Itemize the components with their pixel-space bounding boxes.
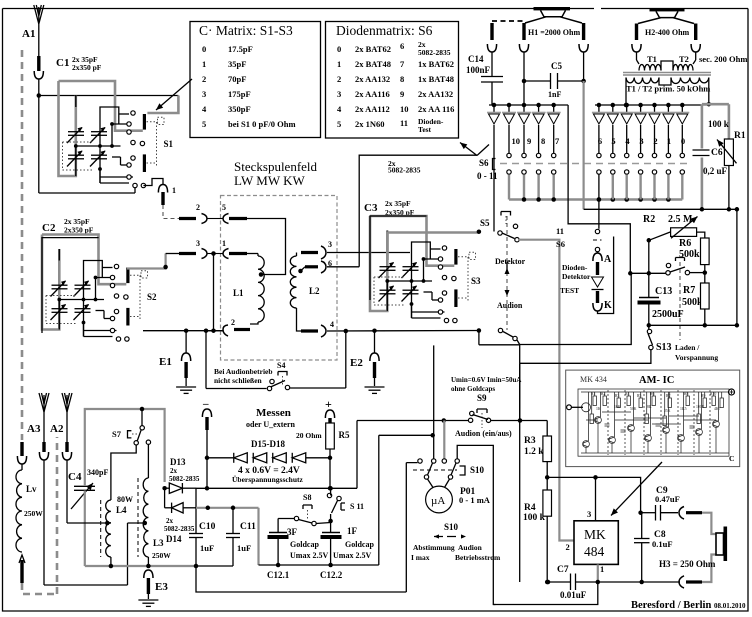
svg-text:R6: R6 bbox=[650, 392, 655, 396]
svg-text:3: 3 bbox=[196, 239, 200, 248]
transformer core bbox=[623, 72, 711, 74]
svg-text:2x: 2x bbox=[166, 517, 174, 525]
svg-text:Dioden-: Dioden- bbox=[562, 263, 588, 272]
svg-text:1: 1 bbox=[337, 59, 341, 69]
svg-text:R4: R4 bbox=[625, 392, 630, 396]
svg-text:H1 =2000 Ohm: H1 =2000 Ohm bbox=[528, 28, 580, 37]
svg-text:R10: R10 bbox=[710, 392, 716, 396]
svg-text:L2: L2 bbox=[309, 286, 320, 296]
bottom rail left bbox=[85, 565, 196, 567]
svg-text:Goldcap: Goldcap bbox=[345, 540, 374, 549]
svg-text:25K: 25K bbox=[664, 409, 671, 413]
svg-text:11: 11 bbox=[556, 226, 564, 236]
svg-text:5082-2835: 5082-2835 bbox=[388, 166, 421, 175]
svg-text:Umin=0.6V Imin=50uA: Umin=0.6V Imin=50uA bbox=[451, 376, 521, 384]
wire S2 out to L1 return bbox=[143, 330, 223, 332]
table Diodenmatrix S6 bbox=[326, 22, 459, 139]
A1 dashed left rail bbox=[21, 50, 24, 440]
wire detector switch row bbox=[630, 272, 666, 274]
svg-text:nicht schließen: nicht schließen bbox=[214, 376, 263, 385]
svg-text:S6: S6 bbox=[479, 158, 489, 168]
wire pin3 node to C9 bbox=[596, 477, 641, 512]
svg-text:S1: S1 bbox=[164, 139, 174, 149]
svg-text:R3: R3 bbox=[524, 436, 536, 446]
arrester A1 bottom bbox=[20, 442, 23, 456]
svg-text:3: 3 bbox=[328, 240, 332, 249]
svg-text:R4: R4 bbox=[524, 503, 536, 513]
wire audion out bbox=[520, 273, 632, 344]
svg-text:C· Matrix: S1-S3: C· Matrix: S1-S3 bbox=[199, 23, 293, 38]
svg-text:2x350 pF: 2x350 pF bbox=[72, 63, 102, 72]
svg-text:Detektor: Detektor bbox=[562, 272, 591, 281]
svg-text:0: 0 bbox=[202, 44, 206, 54]
svg-text:Vorspannung: Vorspannung bbox=[675, 353, 718, 362]
wire 1 to L1 bbox=[247, 253, 258, 255]
svg-text:1F: 1F bbox=[347, 526, 358, 536]
svg-text:7: 7 bbox=[400, 59, 405, 69]
wire C2 to socket3 bbox=[127, 254, 166, 269]
svg-text:17.5pF: 17.5pF bbox=[228, 44, 253, 54]
svg-text:R2: R2 bbox=[601, 392, 606, 396]
C3 outer box bbox=[370, 216, 427, 300]
svg-text:2x: 2x bbox=[170, 467, 178, 475]
wire A1 down bbox=[38, 24, 40, 56]
svg-text:175pF: 175pF bbox=[228, 89, 251, 99]
svg-text:2x AA132: 2x AA132 bbox=[418, 89, 453, 99]
svg-text:R1: R1 bbox=[591, 392, 596, 396]
svg-text:4: 4 bbox=[202, 104, 207, 114]
wire C1 top feed bbox=[39, 95, 179, 97]
jack H3 bottom bbox=[679, 576, 684, 588]
svg-text:0: 0 bbox=[681, 136, 685, 146]
svg-text:1K5: 1K5 bbox=[680, 407, 687, 411]
wire meter feed bbox=[379, 434, 433, 436]
svg-text:10: 10 bbox=[400, 104, 409, 114]
svg-text:70pF: 70pF bbox=[228, 74, 246, 84]
svg-text:D14: D14 bbox=[166, 534, 182, 544]
svg-text:sec. 200 Ohm: sec. 200 Ohm bbox=[699, 54, 747, 64]
svg-text:LW MW KW: LW MW KW bbox=[234, 173, 305, 188]
node L1 tap bbox=[259, 272, 264, 277]
svg-text:250W: 250W bbox=[152, 551, 171, 560]
svg-text:Audion: Audion bbox=[458, 543, 483, 552]
svg-text:R5: R5 bbox=[637, 394, 642, 398]
svg-text:TEST: TEST bbox=[560, 286, 579, 295]
svg-text:S6: S6 bbox=[556, 239, 565, 249]
IC MK484 bbox=[574, 521, 618, 565]
svg-text:R3: R3 bbox=[615, 394, 620, 398]
wire bus 325 bbox=[649, 324, 737, 326]
wire socket6 right bbox=[327, 266, 359, 268]
wire A3 down bbox=[43, 412, 45, 442]
S6 diode group A bus bbox=[489, 104, 568, 106]
svg-text:8: 8 bbox=[541, 136, 545, 146]
svg-text:0: 0 bbox=[337, 44, 341, 54]
svg-text:S4: S4 bbox=[277, 361, 285, 370]
C3 gray top wire bbox=[388, 233, 479, 261]
antenna A2 bbox=[66, 395, 68, 412]
svg-text:Steckspulenfeld: Steckspulenfeld bbox=[234, 159, 318, 174]
wire H1right to bus209 bbox=[582, 81, 584, 209]
wire K loop bbox=[598, 237, 614, 314]
S6 diode group B bus bbox=[595, 104, 709, 106]
node L2 tap bbox=[298, 269, 303, 274]
svg-text:A: A bbox=[604, 254, 612, 265]
headphone H2 bbox=[650, 8, 685, 11]
svg-text:Diodenmatrix: S6: Diodenmatrix: S6 bbox=[336, 23, 433, 38]
svg-text:L​v: L​v bbox=[26, 484, 37, 494]
svg-text:2x BAT62: 2x BAT62 bbox=[355, 44, 391, 54]
svg-text:E3: E3 bbox=[155, 581, 168, 593]
dashed coil-field box bbox=[221, 196, 338, 361]
svg-text:5: 5 bbox=[202, 119, 206, 129]
svg-text:10: 10 bbox=[512, 136, 521, 146]
A1 dashed bottom link bbox=[22, 437, 57, 594]
svg-text:35pF: 35pF bbox=[228, 59, 246, 69]
svg-text:R7: R7 bbox=[683, 285, 695, 296]
svg-text:500k: 500k bbox=[682, 297, 703, 308]
antenna A3 bbox=[43, 395, 45, 412]
svg-text:4K7: 4K7 bbox=[714, 407, 721, 411]
svg-text:Goldcap: Goldcap bbox=[290, 540, 319, 549]
svg-text:Laden /: Laden / bbox=[675, 343, 700, 352]
svg-text:R1: R1 bbox=[734, 131, 746, 141]
svg-text:1: 1 bbox=[172, 186, 176, 195]
S6 contacts group A row1 bbox=[507, 153, 511, 157]
svg-text:C5: C5 bbox=[551, 61, 562, 71]
svg-text:A2: A2 bbox=[50, 423, 64, 435]
node L3 tap bbox=[143, 521, 148, 526]
AM-IC box bbox=[566, 370, 740, 467]
svg-text:20 Ohm: 20 Ohm bbox=[296, 431, 322, 440]
svg-text:C13: C13 bbox=[655, 286, 672, 297]
svg-text:250W: 250W bbox=[24, 509, 43, 518]
wire measure bus 488 bbox=[196, 487, 357, 489]
diodes group B bbox=[598, 105, 600, 113]
svg-text:R7: R7 bbox=[666, 394, 671, 398]
svg-text:2: 2 bbox=[566, 542, 570, 552]
jack H3 top bbox=[679, 507, 684, 520]
S6 contacts group B row2 bbox=[597, 170, 601, 174]
node box top bbox=[140, 407, 145, 412]
wire to speaker bottom bbox=[702, 555, 716, 583]
S6 output bus bbox=[509, 198, 682, 200]
arrester on A1 bbox=[37, 56, 40, 71]
S6 linkage dashed bbox=[500, 163, 690, 165]
svg-text:C12.1: C12.1 bbox=[267, 570, 290, 580]
switch R6 bypass bbox=[666, 263, 670, 267]
table C-Matrix S1-S3 bbox=[190, 22, 321, 138]
svg-text:0.01uF: 0.01uF bbox=[560, 590, 587, 600]
svg-text:MK 434: MK 434 bbox=[580, 375, 607, 384]
annotation arrow to S1 bbox=[156, 79, 192, 110]
node C9 bbox=[638, 510, 643, 515]
wire socket4 to E2 bbox=[327, 330, 479, 333]
svg-text:Überspannungsschutz: Überspannungsschutz bbox=[232, 475, 304, 484]
node detector line bbox=[628, 271, 633, 276]
svg-text:5: 5 bbox=[611, 136, 615, 146]
svg-text:A3: A3 bbox=[27, 423, 41, 435]
wire minus rail vertical x520 bbox=[519, 363, 521, 420]
node R5-diode bbox=[328, 456, 333, 461]
wire C1 bottom return bbox=[39, 192, 135, 194]
svg-text:6: 6 bbox=[400, 41, 404, 51]
wire socket1 dashed down bbox=[163, 205, 190, 219]
H1 left pin bbox=[522, 23, 525, 40]
svg-text:4: 4 bbox=[330, 320, 334, 329]
svg-text:5: 5 bbox=[222, 203, 226, 212]
svg-text:D13: D13 bbox=[170, 457, 186, 467]
svg-text:S10: S10 bbox=[470, 465, 485, 475]
svg-text:C14: C14 bbox=[468, 54, 484, 64]
H2 left pin bbox=[635, 24, 638, 41]
svg-text:Audion (ein/aus): Audion (ein/aus) bbox=[455, 429, 512, 438]
svg-text:2: 2 bbox=[337, 74, 341, 84]
audion switch bbox=[498, 328, 502, 332]
svg-text:100K: 100K bbox=[696, 405, 705, 409]
svg-text:2500uF: 2500uF bbox=[652, 309, 684, 320]
wire S13 return bbox=[520, 345, 651, 364]
svg-text:1uF: 1uF bbox=[237, 543, 251, 553]
svg-text:6: 6 bbox=[598, 136, 602, 146]
svg-text:2x AA 116: 2x AA 116 bbox=[418, 104, 454, 114]
svg-text:484: 484 bbox=[584, 544, 605, 559]
svg-text:2: 2 bbox=[202, 74, 206, 84]
socket 1 plug bbox=[158, 185, 167, 193]
svg-text:C2: C2 bbox=[42, 222, 56, 234]
svg-text:S7: S7 bbox=[112, 429, 122, 439]
antenna A1 bbox=[38, 7, 40, 24]
wire socket3 to C3 bbox=[327, 252, 410, 254]
svg-text:1: 1 bbox=[667, 136, 671, 146]
svg-text:C11: C11 bbox=[240, 522, 256, 532]
R2 pot arrow bbox=[671, 217, 698, 239]
wire to speaker top bbox=[702, 513, 716, 534]
svg-text:100 k: 100 k bbox=[708, 119, 729, 129]
node L4 tap bbox=[105, 521, 110, 526]
svg-text:Detektor: Detektor bbox=[495, 257, 526, 266]
svg-text:2x AA112: 2x AA112 bbox=[355, 104, 390, 114]
svg-text:Messen: Messen bbox=[256, 407, 291, 419]
svg-text:S13: S13 bbox=[656, 342, 672, 353]
wire contact2 vertical bbox=[433, 345, 435, 458]
svg-text:–: – bbox=[202, 398, 209, 410]
svg-text:3: 3 bbox=[337, 89, 341, 99]
svg-text:50K: 50K bbox=[630, 407, 637, 411]
wire C3 left vertical bbox=[359, 155, 477, 267]
wire R2 right to R6 bbox=[697, 232, 705, 238]
wire A1 vertical to C2 bbox=[38, 96, 40, 194]
wire S1 to socket 1 bbox=[143, 179, 163, 186]
svg-text:E1: E1 bbox=[159, 356, 172, 368]
svg-text:L4: L4 bbox=[116, 505, 127, 515]
svg-text:0 - 1 mA: 0 - 1 mA bbox=[459, 495, 491, 505]
wire R3R4 to pin3 bbox=[547, 476, 595, 478]
svg-text:1uF: 1uF bbox=[200, 543, 214, 553]
wire S9 row bbox=[357, 420, 468, 422]
dashed C14 to H1 bbox=[492, 20, 524, 22]
svg-text:R5: R5 bbox=[339, 430, 350, 440]
svg-text:µA: µA bbox=[431, 495, 445, 507]
svg-text:350pF: 350pF bbox=[228, 104, 251, 114]
wire to goldcap rail bbox=[257, 508, 259, 565]
wire 5 to L1 tap bbox=[247, 219, 286, 275]
svg-text:4: 4 bbox=[625, 136, 630, 146]
wire A2 down bbox=[66, 412, 68, 442]
node E2 bbox=[372, 328, 377, 333]
svg-text:oder U_extern: oder U_extern bbox=[246, 420, 296, 429]
node S2a bbox=[184, 328, 189, 333]
svg-text:0.1uF: 0.1uF bbox=[652, 539, 673, 549]
svg-text:0 - 11: 0 - 11 bbox=[477, 171, 498, 181]
headphone H1 bbox=[534, 7, 571, 10]
meter P01 bbox=[426, 486, 453, 513]
svg-text:C6: C6 bbox=[711, 148, 723, 158]
S6 contacts group A row2 bbox=[507, 170, 511, 174]
svg-text:I max: I max bbox=[411, 553, 430, 562]
svg-text:8K: 8K bbox=[647, 405, 652, 409]
AM-IC internals bbox=[581, 390, 729, 455]
svg-text:Beresford / Berlin: Beresford / Berlin bbox=[631, 600, 711, 611]
wire minus down to C10 bbox=[195, 488, 197, 507]
transformer T1/T2 primary bbox=[626, 78, 659, 84]
wire S6 to diodetest bbox=[568, 105, 630, 273]
H1 right pin bbox=[582, 23, 585, 40]
AM-IC pin circles bbox=[567, 405, 572, 410]
svg-text:T2: T2 bbox=[679, 54, 689, 64]
svg-text:340pF: 340pF bbox=[87, 468, 108, 477]
svg-text:MK: MK bbox=[584, 527, 606, 542]
svg-text:3: 3 bbox=[202, 89, 206, 99]
wire S5 to pin2 rail bbox=[519, 240, 574, 541]
svg-text:500k: 500k bbox=[679, 249, 700, 260]
meter box bbox=[406, 463, 417, 592]
svg-text:5: 5 bbox=[337, 119, 341, 129]
svg-text:S8: S8 bbox=[303, 493, 311, 502]
variable capacitor bank C3 bbox=[370, 216, 476, 323]
svg-text:80W: 80W bbox=[117, 495, 133, 504]
node E2 left bbox=[344, 329, 349, 334]
wire to C7/S9 vertical bbox=[519, 363, 521, 582]
svg-text:100 k: 100 k bbox=[523, 513, 546, 523]
svg-text:1.2 k: 1.2 k bbox=[524, 447, 544, 457]
svg-text:C4: C4 bbox=[68, 471, 82, 483]
svg-text:C10: C10 bbox=[199, 522, 216, 532]
node R2 bbox=[647, 238, 652, 243]
svg-text:S3: S3 bbox=[471, 276, 481, 286]
svg-text:11: 11 bbox=[400, 118, 408, 128]
svg-text:3: 3 bbox=[587, 509, 591, 519]
svg-text:R6: R6 bbox=[679, 238, 691, 249]
L-box gray frame bbox=[85, 409, 165, 486]
svg-text:S 11: S 11 bbox=[350, 502, 364, 511]
svg-text:2x AA132: 2x AA132 bbox=[355, 74, 390, 84]
svg-text:Umax 2.5V: Umax 2.5V bbox=[333, 551, 371, 560]
wire C10-C11 top bbox=[196, 507, 259, 509]
svg-text:Abstimmung: Abstimmung bbox=[413, 543, 455, 552]
svg-text:1: 1 bbox=[222, 239, 226, 248]
svg-text:R2: R2 bbox=[643, 214, 655, 225]
svg-text:2x BAT48: 2x BAT48 bbox=[355, 59, 391, 69]
terminal K bbox=[596, 291, 599, 303]
svg-text:3F: 3F bbox=[287, 527, 298, 537]
svg-text:Audion: Audion bbox=[497, 301, 523, 310]
node minus-diode bbox=[205, 456, 210, 461]
svg-text:Betriebsstrom: Betriebsstrom bbox=[455, 553, 501, 562]
svg-text:1K: 1K bbox=[596, 407, 601, 411]
svg-text:1x BAT62: 1x BAT62 bbox=[418, 59, 454, 69]
svg-text:08.01.2010: 08.01.2010 bbox=[714, 602, 746, 610]
svg-text:10K: 10K bbox=[614, 405, 621, 409]
transistor Q1 input bbox=[582, 403, 591, 412]
wire 3 down to return bbox=[213, 254, 215, 331]
svg-text:K: K bbox=[604, 300, 612, 311]
wire right column bbox=[736, 209, 738, 325]
svg-text:D15-D18: D15-D18 bbox=[251, 439, 285, 449]
svg-text:C: C bbox=[729, 454, 734, 463]
svg-text:C7: C7 bbox=[557, 565, 569, 575]
svg-text:E2: E2 bbox=[350, 357, 363, 369]
svg-text:AM- IC: AM- IC bbox=[639, 375, 674, 386]
svg-text:8: 8 bbox=[400, 74, 404, 84]
svg-text:9: 9 bbox=[400, 89, 404, 99]
svg-text:9: 9 bbox=[527, 136, 531, 146]
wire contact3 vertical bbox=[443, 421, 445, 459]
variable capacitor bank C2 bbox=[42, 235, 148, 342]
svg-text:S9: S9 bbox=[477, 393, 487, 403]
svg-text:bei S1 0 pF/0 Ohm: bei S1 0 pF/0 Ohm bbox=[228, 119, 296, 129]
svg-text:Umax 2.5V: Umax 2.5V bbox=[290, 551, 328, 560]
svg-text:A1: A1 bbox=[22, 28, 35, 40]
rail 592 bbox=[196, 566, 406, 592]
svg-text:2: 2 bbox=[196, 203, 200, 212]
arrow AM-IC to MK484 bbox=[611, 462, 662, 516]
svg-text:1: 1 bbox=[600, 564, 604, 574]
S6 contacts group B row1 bbox=[597, 153, 601, 157]
svg-text:2x AA116: 2x AA116 bbox=[355, 89, 390, 99]
annotation arrow S6 bbox=[460, 143, 477, 156]
svg-text:5082-2835: 5082-2835 bbox=[418, 48, 451, 57]
S1 wiper gray link bbox=[147, 96, 178, 114]
svg-text:2: 2 bbox=[231, 318, 235, 327]
svg-text:+: + bbox=[325, 397, 332, 411]
diodes group A bbox=[493, 105, 495, 113]
variable capacitor bank C1 bbox=[59, 81, 165, 188]
R1 pot arrow bbox=[717, 140, 737, 164]
svg-text:0,2 uF: 0,2 uF bbox=[703, 166, 728, 176]
goldcap right rail bbox=[378, 435, 380, 565]
svg-text:2: 2 bbox=[653, 136, 657, 146]
svg-text:S2: S2 bbox=[147, 292, 157, 302]
svg-text:R8: R8 bbox=[684, 392, 689, 396]
svg-text:L3: L3 bbox=[153, 538, 164, 548]
svg-text:4: 4 bbox=[337, 104, 342, 114]
wire output rail 582 bbox=[598, 581, 642, 583]
svg-text:5082-2835: 5082-2835 bbox=[169, 475, 200, 483]
terminal A bbox=[597, 252, 599, 254]
node T2-R1 bbox=[707, 102, 712, 107]
svg-text:3: 3 bbox=[639, 136, 643, 146]
C2 outer box bbox=[42, 238, 99, 333]
node S2b bbox=[204, 328, 209, 333]
svg-text:0.47uF: 0.47uF bbox=[655, 494, 680, 504]
svg-text:H3 = 250 Ohm: H3 = 250 Ohm bbox=[659, 559, 716, 569]
svg-text:S5: S5 bbox=[480, 218, 490, 228]
svg-text:7: 7 bbox=[555, 136, 560, 146]
svg-text:Test: Test bbox=[418, 125, 432, 134]
svg-text:2x 1N60: 2x 1N60 bbox=[355, 119, 385, 129]
svg-text:S10: S10 bbox=[444, 522, 459, 532]
